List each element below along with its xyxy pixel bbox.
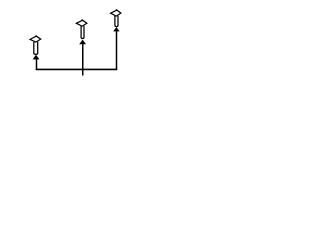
deflector rhombus S1 <box>30 36 41 42</box>
riser wire S3 <box>116 31 118 70</box>
sprinkler head S2 <box>76 19 87 44</box>
arrowhead S3 <box>113 27 119 31</box>
drop wire S2 through junction <box>82 44 84 76</box>
deflector rhombus S2 <box>76 20 87 26</box>
arrowhead S2 <box>79 40 86 45</box>
tick S1 <box>35 35 37 37</box>
tick S3 <box>115 9 117 11</box>
deflector rhombus S3 <box>111 10 121 16</box>
body/pole S3 <box>115 16 118 27</box>
riser wire S1 <box>36 59 38 70</box>
body/pole S2 <box>81 26 84 39</box>
arrowhead S1 <box>33 55 40 60</box>
sprinkler head S1 <box>30 35 41 59</box>
tick S2 <box>81 19 83 21</box>
wire bus main <box>36 68 118 70</box>
body/pole S1 <box>34 42 38 55</box>
sprinkler head S3 <box>111 9 121 31</box>
